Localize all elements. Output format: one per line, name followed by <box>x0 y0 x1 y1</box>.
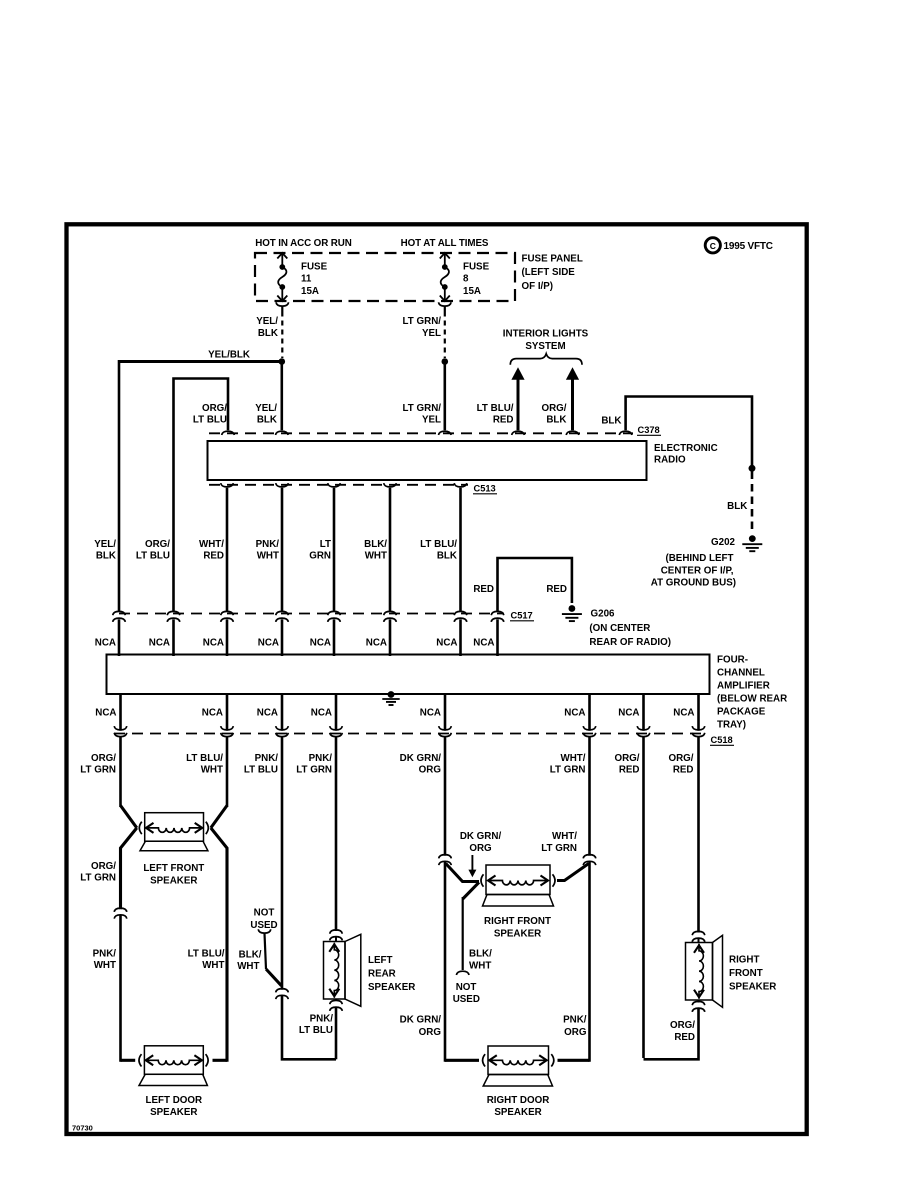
wire PNK/LT BLU amplifier output <box>281 694 284 731</box>
svg-text:70730: 70730 <box>72 1124 93 1133</box>
wire ORG/RED amplifier output <box>697 694 700 731</box>
svg-text:NCA: NCA <box>673 708 694 719</box>
pin C378 BLK <box>619 431 632 435</box>
svg-text:NCA: NCA <box>436 637 457 648</box>
arrow wire LT BLU/RED to interior lights <box>511 367 524 380</box>
wire ORG/LT GRN down-left to LF speaker <box>119 737 122 807</box>
pin C378 LT BLU/RED <box>512 431 525 435</box>
wire WHT/LT GRN continues to right door speaker <box>588 862 591 1062</box>
svg-text:RADIO: RADIO <box>654 455 686 466</box>
electronic radio box U1 <box>208 441 647 480</box>
inline connector C518 LT BLU/WHT <box>221 726 234 730</box>
wire ORG/RED bottom link <box>644 1009 699 1059</box>
pin C513 BLK/WHT <box>384 483 397 487</box>
svg-text:YEL: YEL <box>422 414 441 425</box>
wire NCA to amplifier <box>496 619 499 656</box>
inline connector C518 DK GRN/ORG <box>439 726 452 730</box>
wire LT GRN/YEL down to radio C378 <box>443 362 446 431</box>
svg-text:USED: USED <box>250 920 277 931</box>
inline connector C518 ORG/RED <box>692 726 705 730</box>
wire ORG/RED down to RFv speaker top <box>697 737 700 933</box>
svg-text:ORG/: ORG/ <box>91 753 116 764</box>
svg-text:SPEAKER: SPEAKER <box>150 1107 197 1118</box>
svg-text:SPEAKER: SPEAKER <box>368 982 415 993</box>
svg-text:LT GRN/: LT GRN/ <box>403 403 442 414</box>
svg-text:1995 VFTC: 1995 VFTC <box>724 241 773 252</box>
svg-text:(LEFT SIDE: (LEFT SIDE <box>522 267 576 278</box>
svg-text:ORG: ORG <box>419 765 442 776</box>
svg-text:HOT AT ALL TIMES: HOT AT ALL TIMES <box>401 238 489 249</box>
ground G206 <box>569 605 576 612</box>
svg-text:FUSE PANEL: FUSE PANEL <box>522 253 583 264</box>
wire branch DK GRN/ORG into RF speaker <box>446 864 479 882</box>
svg-text:NCA: NCA <box>564 708 585 719</box>
left front speaker LS1 <box>145 813 204 842</box>
svg-text:SPEAKER: SPEAKER <box>494 928 541 939</box>
splice dot S101 YEL/BLK <box>279 358 286 365</box>
wire ORG/LT BLU loop from radio C378 up and left down to C517 <box>174 379 229 613</box>
inline connector C517 BLK/WHT <box>384 611 397 615</box>
svg-text:GRN: GRN <box>309 550 331 561</box>
wire branch WHT/LT GRN into RF speaker <box>557 864 589 881</box>
wire ORG/RED amplifier output <box>642 694 645 731</box>
svg-text:LT BLU/: LT BLU/ <box>186 753 223 764</box>
inline connector C518 WHT/LT GRN <box>583 726 596 730</box>
svg-text:DK GRN/: DK GRN/ <box>400 1014 442 1025</box>
svg-text:BLK: BLK <box>96 550 116 561</box>
inline connector C517 YEL/BLK <box>113 611 126 615</box>
fuse 8 symbol <box>440 253 450 259</box>
pin C378 ORG/BLK <box>566 431 579 435</box>
svg-text:RIGHT DOOR: RIGHT DOOR <box>487 1095 550 1106</box>
svg-text:C513: C513 <box>474 484 496 494</box>
wire PNK/LT BLU up from LR speaker loop <box>281 737 284 990</box>
wire NCA to amplifier <box>118 619 121 656</box>
inline connector C518 PNK/LT GRN <box>330 726 343 730</box>
svg-text:ORG: ORG <box>469 843 492 854</box>
wire ORG/LT GRN from LF speaker terminal down <box>121 828 137 909</box>
svg-text:LT GRN: LT GRN <box>80 873 116 884</box>
svg-text:ORG: ORG <box>564 1027 587 1038</box>
inline connector C518 ORG/RED <box>637 726 650 730</box>
copyright mark 1995 VFTC <box>705 238 720 253</box>
wire LT BLU/WHT from LF speaker down <box>211 828 227 1062</box>
svg-text:WHT: WHT <box>469 960 491 971</box>
svg-text:LT BLU/: LT BLU/ <box>420 539 457 550</box>
svg-text:PNK/: PNK/ <box>563 1014 587 1025</box>
connector stub under fuse 11 <box>276 302 289 306</box>
svg-text:YEL/: YEL/ <box>255 403 277 414</box>
right front speaker LS6 (vertical) <box>686 943 713 1001</box>
wire NCA to amplifier <box>459 619 462 656</box>
wire ORG/LT GRN amplifier output <box>119 694 122 731</box>
svg-text:C: C <box>710 241 716 251</box>
svg-text:SYSTEM: SYSTEM <box>525 341 565 352</box>
svg-text:BLK/: BLK/ <box>469 948 492 959</box>
svg-text:ORG/: ORG/ <box>668 753 693 764</box>
wire BLK dashed down to G202 <box>751 472 754 533</box>
svg-text:LEFT: LEFT <box>368 955 393 966</box>
svg-text:LEFT DOOR: LEFT DOOR <box>145 1095 202 1106</box>
svg-text:ORG: ORG <box>419 1027 442 1038</box>
wire into right door speaker left terminal <box>445 1059 479 1062</box>
svg-text:RIGHT: RIGHT <box>729 955 759 966</box>
svg-text:LT BLU/: LT BLU/ <box>477 403 514 414</box>
svg-text:NCA: NCA <box>311 708 332 719</box>
brace over interior lights arrows <box>510 354 582 365</box>
inline connector at RFv speaker top <box>692 931 705 935</box>
svg-text:YEL/BLK: YEL/BLK <box>208 350 250 361</box>
svg-text:BLK: BLK <box>437 550 457 561</box>
svg-text:PNK/: PNK/ <box>93 948 117 959</box>
svg-text:BLK: BLK <box>257 414 277 425</box>
inline connector C517 RED <box>491 611 504 615</box>
ground G202 <box>749 535 756 542</box>
svg-text:NCA: NCA <box>618 708 639 719</box>
svg-text:(BEHIND LEFT: (BEHIND LEFT <box>665 553 733 564</box>
svg-text:ORG/: ORG/ <box>202 403 227 414</box>
left rear speaker LS3 <box>324 942 346 1000</box>
wire DK GRN/ORG continues to right door speaker <box>444 862 447 1062</box>
pin C378 LT GRN/YEL <box>439 431 452 435</box>
svg-text:CENTER OF I/P,: CENTER OF I/P, <box>661 565 734 576</box>
stub NOT USED BLK/WHT (left rear) <box>258 929 271 933</box>
svg-text:DK GRN/: DK GRN/ <box>460 831 502 842</box>
inline connector WHT/LT GRN <box>583 855 596 859</box>
svg-text:AT GROUND BUS): AT GROUND BUS) <box>651 577 736 588</box>
svg-text:RED: RED <box>619 765 640 776</box>
svg-text:NCA: NCA <box>203 637 224 648</box>
svg-text:FUSE: FUSE <box>463 261 490 272</box>
inline connector C518 PNK/LT BLU <box>276 726 289 730</box>
svg-text:SPEAKER: SPEAKER <box>729 982 776 993</box>
svg-text:WHT: WHT <box>201 765 223 776</box>
wire WHT/LT GRN amplifier output <box>588 694 591 731</box>
arrow marker DK GRN/ORG <box>471 855 473 872</box>
svg-text:RED: RED <box>546 584 567 595</box>
svg-text:G202: G202 <box>711 537 736 548</box>
svg-text:OF I/P): OF I/P) <box>522 281 554 292</box>
pin C513 PNK/WHT <box>276 483 289 487</box>
svg-text:WHT: WHT <box>94 960 116 971</box>
svg-text:(BELOW REAR: (BELOW REAR <box>717 694 787 705</box>
wire DK GRN/ORG down (main run) <box>444 737 447 856</box>
wire WHT/LT GRN down (main run) <box>588 737 591 856</box>
connector C518 dashed line <box>114 733 704 735</box>
svg-text:TRAY): TRAY) <box>717 720 746 731</box>
svg-text:AMPLIFIER: AMPLIFIER <box>717 681 770 692</box>
wire YEL/BLK from splice down to radio C378 <box>280 362 283 431</box>
border frame <box>67 224 807 1134</box>
inline connector on PNK/LT BLU <box>276 989 289 993</box>
wire BLK from radio C378 up over to ground drop <box>626 397 752 466</box>
stub NOT USED BLK/WHT (right front) <box>456 971 469 975</box>
svg-text:ORG/: ORG/ <box>145 539 170 550</box>
svg-text:ORG/: ORG/ <box>541 403 566 414</box>
svg-text:LT BLU: LT BLU <box>193 414 227 425</box>
svg-text:PNK/: PNK/ <box>310 1013 334 1024</box>
svg-text:NCA: NCA <box>366 637 387 648</box>
svg-text:BLK: BLK <box>258 328 278 339</box>
wire BLK/WHT radio to amplifier <box>389 488 392 612</box>
svg-text:NCA: NCA <box>310 637 331 648</box>
svg-text:LT GRN: LT GRN <box>80 765 116 776</box>
svg-text:ORG/: ORG/ <box>91 861 116 872</box>
svg-text:WHT/: WHT/ <box>552 831 577 842</box>
inline connector C517 ORG/LT BLU <box>167 611 180 615</box>
pin C378 ORG/LT BLU <box>222 431 235 435</box>
connector C517 dashed line <box>119 613 504 615</box>
inline connector on LF common wire <box>114 908 127 912</box>
wire PNK/LT GRN amplifier output <box>335 694 338 731</box>
svg-text:NCA: NCA <box>257 708 278 719</box>
wire YEL/BLK horizontal to left run <box>119 360 282 363</box>
arrow wire ORG/BLK to interior lights <box>566 367 579 380</box>
wire LT BLU/BLK radio to amplifier <box>459 488 462 612</box>
svg-text:LT GRN/: LT GRN/ <box>403 316 442 327</box>
svg-text:REAR OF RADIO): REAR OF RADIO) <box>589 637 671 648</box>
wire ORG/RED loop via second amp output <box>642 737 645 1058</box>
wire BLK/WHT from RF speaker terminal down (not used) <box>463 882 479 899</box>
svg-text:NCA: NCA <box>95 708 116 719</box>
wire LTGRN radio to amplifier <box>333 488 336 612</box>
svg-text:ORG/: ORG/ <box>614 753 639 764</box>
svg-text:NCA: NCA <box>473 637 494 648</box>
svg-text:RIGHT FRONT: RIGHT FRONT <box>484 916 551 927</box>
svg-text:INTERIOR LIGHTS: INTERIOR LIGHTS <box>503 328 589 339</box>
svg-text:DK GRN/: DK GRN/ <box>400 753 442 764</box>
svg-text:LT GRN: LT GRN <box>541 843 577 854</box>
wire WHT/RED radio to amplifier <box>226 488 229 612</box>
wire into left door speaker left terminal <box>121 1059 136 1062</box>
svg-text:15A: 15A <box>463 286 481 297</box>
svg-text:PNK/: PNK/ <box>309 753 333 764</box>
svg-text:FUSE: FUSE <box>301 261 328 272</box>
wire LT BLU/WHT down-right to LF speaker <box>226 737 229 807</box>
wire NCA to amplifier <box>172 619 175 656</box>
wire LT BLU/WHT amplifier output <box>226 694 229 731</box>
four-channel amplifier box U2 <box>107 655 710 695</box>
svg-text:LEFT FRONT: LEFT FRONT <box>143 863 204 874</box>
svg-text:YEL/: YEL/ <box>256 316 278 327</box>
inline connector DK GRN/ORG <box>439 855 452 859</box>
inline connector C517 LT BLU/BLK <box>454 611 467 615</box>
inline connector C518 ORG/LT GRN <box>114 726 127 730</box>
svg-text:LT BLU: LT BLU <box>299 1025 333 1036</box>
svg-text:WHT: WHT <box>257 550 279 561</box>
svg-text:PNK/: PNK/ <box>256 539 280 550</box>
pin C513 LT BLU/BLK <box>454 483 467 487</box>
svg-text:LT GRN: LT GRN <box>550 765 586 776</box>
svg-text:RED: RED <box>203 550 224 561</box>
wire NCA to amplifier <box>281 619 284 656</box>
svg-text:BLK/: BLK/ <box>364 539 387 550</box>
svg-text:USED: USED <box>453 994 480 1005</box>
svg-text:NCA: NCA <box>149 637 170 648</box>
inline connector C517 PNK/WHT <box>276 611 289 615</box>
svg-text:11: 11 <box>301 274 312 285</box>
wire into right door speaker right terminal <box>558 1059 590 1062</box>
svg-text:LT BLU: LT BLU <box>244 765 278 776</box>
wire PNK/WHT radio to amplifier <box>281 488 284 612</box>
wire NCA to amplifier <box>389 619 392 656</box>
svg-text:FRONT: FRONT <box>729 968 763 979</box>
svg-text:15A: 15A <box>301 286 319 297</box>
svg-text:(ON CENTER: (ON CENTER <box>589 623 650 634</box>
svg-text:ORG/: ORG/ <box>670 1020 695 1031</box>
pin C513 WHT/RED <box>221 483 234 487</box>
svg-text:NCA: NCA <box>95 637 116 648</box>
splice dot LT GRN/YEL <box>442 358 449 365</box>
svg-text:WHT/: WHT/ <box>199 539 224 550</box>
svg-text:CHANNEL: CHANNEL <box>717 668 765 679</box>
svg-text:RED: RED <box>473 584 494 595</box>
fuse 11 symbol <box>277 253 287 259</box>
svg-text:SPEAKER: SPEAKER <box>150 875 197 886</box>
wire PNK/WHT down to left door speaker <box>119 916 122 1062</box>
svg-text:RED: RED <box>673 765 694 776</box>
svg-text:ELECTRONIC: ELECTRONIC <box>654 443 718 454</box>
splice dot BLK <box>749 465 756 472</box>
wire NCA to amplifier <box>226 619 229 656</box>
svg-text:HOT IN ACC OR RUN: HOT IN ACC OR RUN <box>255 238 351 249</box>
inline connector at RFv speaker bottom <box>692 1001 705 1005</box>
inline connector at LR speaker bottom <box>330 1000 343 1004</box>
right front speaker LS4 <box>486 865 550 895</box>
svg-text:YEL/: YEL/ <box>94 539 116 550</box>
svg-text:LT: LT <box>320 539 331 550</box>
svg-text:WHT: WHT <box>365 550 387 561</box>
svg-text:NCA: NCA <box>202 708 223 719</box>
svg-text:LT GRN: LT GRN <box>296 765 332 776</box>
svg-text:NOT: NOT <box>254 907 275 918</box>
svg-text:NOT: NOT <box>456 982 477 993</box>
svg-text:8: 8 <box>463 274 469 285</box>
connector C513 dashed line <box>209 484 468 486</box>
svg-text:G206: G206 <box>591 609 616 620</box>
svg-text:NCA: NCA <box>258 637 279 648</box>
right door speaker LS5 <box>488 1046 549 1075</box>
svg-text:C378: C378 <box>638 425 660 435</box>
svg-text:BLK: BLK <box>601 415 621 426</box>
wire DK GRN/ORG amplifier output <box>444 694 447 731</box>
wire PNK/LT GRN down to LR speaker <box>335 737 338 931</box>
svg-text:C518: C518 <box>711 735 733 745</box>
connector stub under fuse 8 <box>439 302 452 306</box>
svg-text:LT BLU: LT BLU <box>136 550 170 561</box>
svg-text:PACKAGE: PACKAGE <box>717 707 766 718</box>
inline connector C517 LT GRN <box>328 611 341 615</box>
wire into left door speaker right terminal <box>213 1059 228 1062</box>
svg-text:WHT: WHT <box>202 960 224 971</box>
svg-text:C517: C517 <box>511 611 533 621</box>
inline connector C517 WHT/RED <box>221 611 234 615</box>
wire dashed LT GRN/YEL from fuse 8 <box>444 312 446 359</box>
svg-text:FOUR-: FOUR- <box>717 655 748 666</box>
ground symbol inside amplifier <box>388 691 395 698</box>
svg-text:BLK: BLK <box>727 501 747 512</box>
svg-text:RED: RED <box>674 1032 695 1043</box>
svg-text:LT BLU/: LT BLU/ <box>188 948 225 959</box>
svg-text:NCA: NCA <box>420 708 441 719</box>
pin C378 YEL/BLK <box>276 431 289 435</box>
fuse panel dashed box <box>255 253 515 301</box>
connector C378 dashed line <box>209 432 633 434</box>
wire YEL/BLK left vertical down to C517 <box>118 360 121 612</box>
inline connector at LR speaker top <box>330 930 343 934</box>
svg-text:PNK/: PNK/ <box>255 753 279 764</box>
svg-text:WHT/: WHT/ <box>560 753 585 764</box>
wire BLK/WHT diagonal to PNK/LT BLU <box>266 969 282 986</box>
wire dashed YEL/BLK from fuse 11 to splice <box>281 312 283 359</box>
svg-text:BLK/: BLK/ <box>239 949 262 960</box>
left door speaker LS2 <box>144 1046 203 1075</box>
pin C513 LT GRN <box>328 483 341 487</box>
svg-text:WHT: WHT <box>237 961 259 972</box>
svg-text:REAR: REAR <box>368 969 396 980</box>
svg-text:SPEAKER: SPEAKER <box>494 1107 541 1118</box>
svg-text:YEL: YEL <box>422 328 441 339</box>
svg-text:RED: RED <box>493 414 514 425</box>
wire RED loop from C517 up over to ground G206 <box>498 558 572 612</box>
wire PNK/LT BLU lower run to LR speaker bottom <box>282 996 336 1059</box>
svg-text:BLK: BLK <box>546 414 566 425</box>
wire NCA to amplifier <box>333 619 336 656</box>
